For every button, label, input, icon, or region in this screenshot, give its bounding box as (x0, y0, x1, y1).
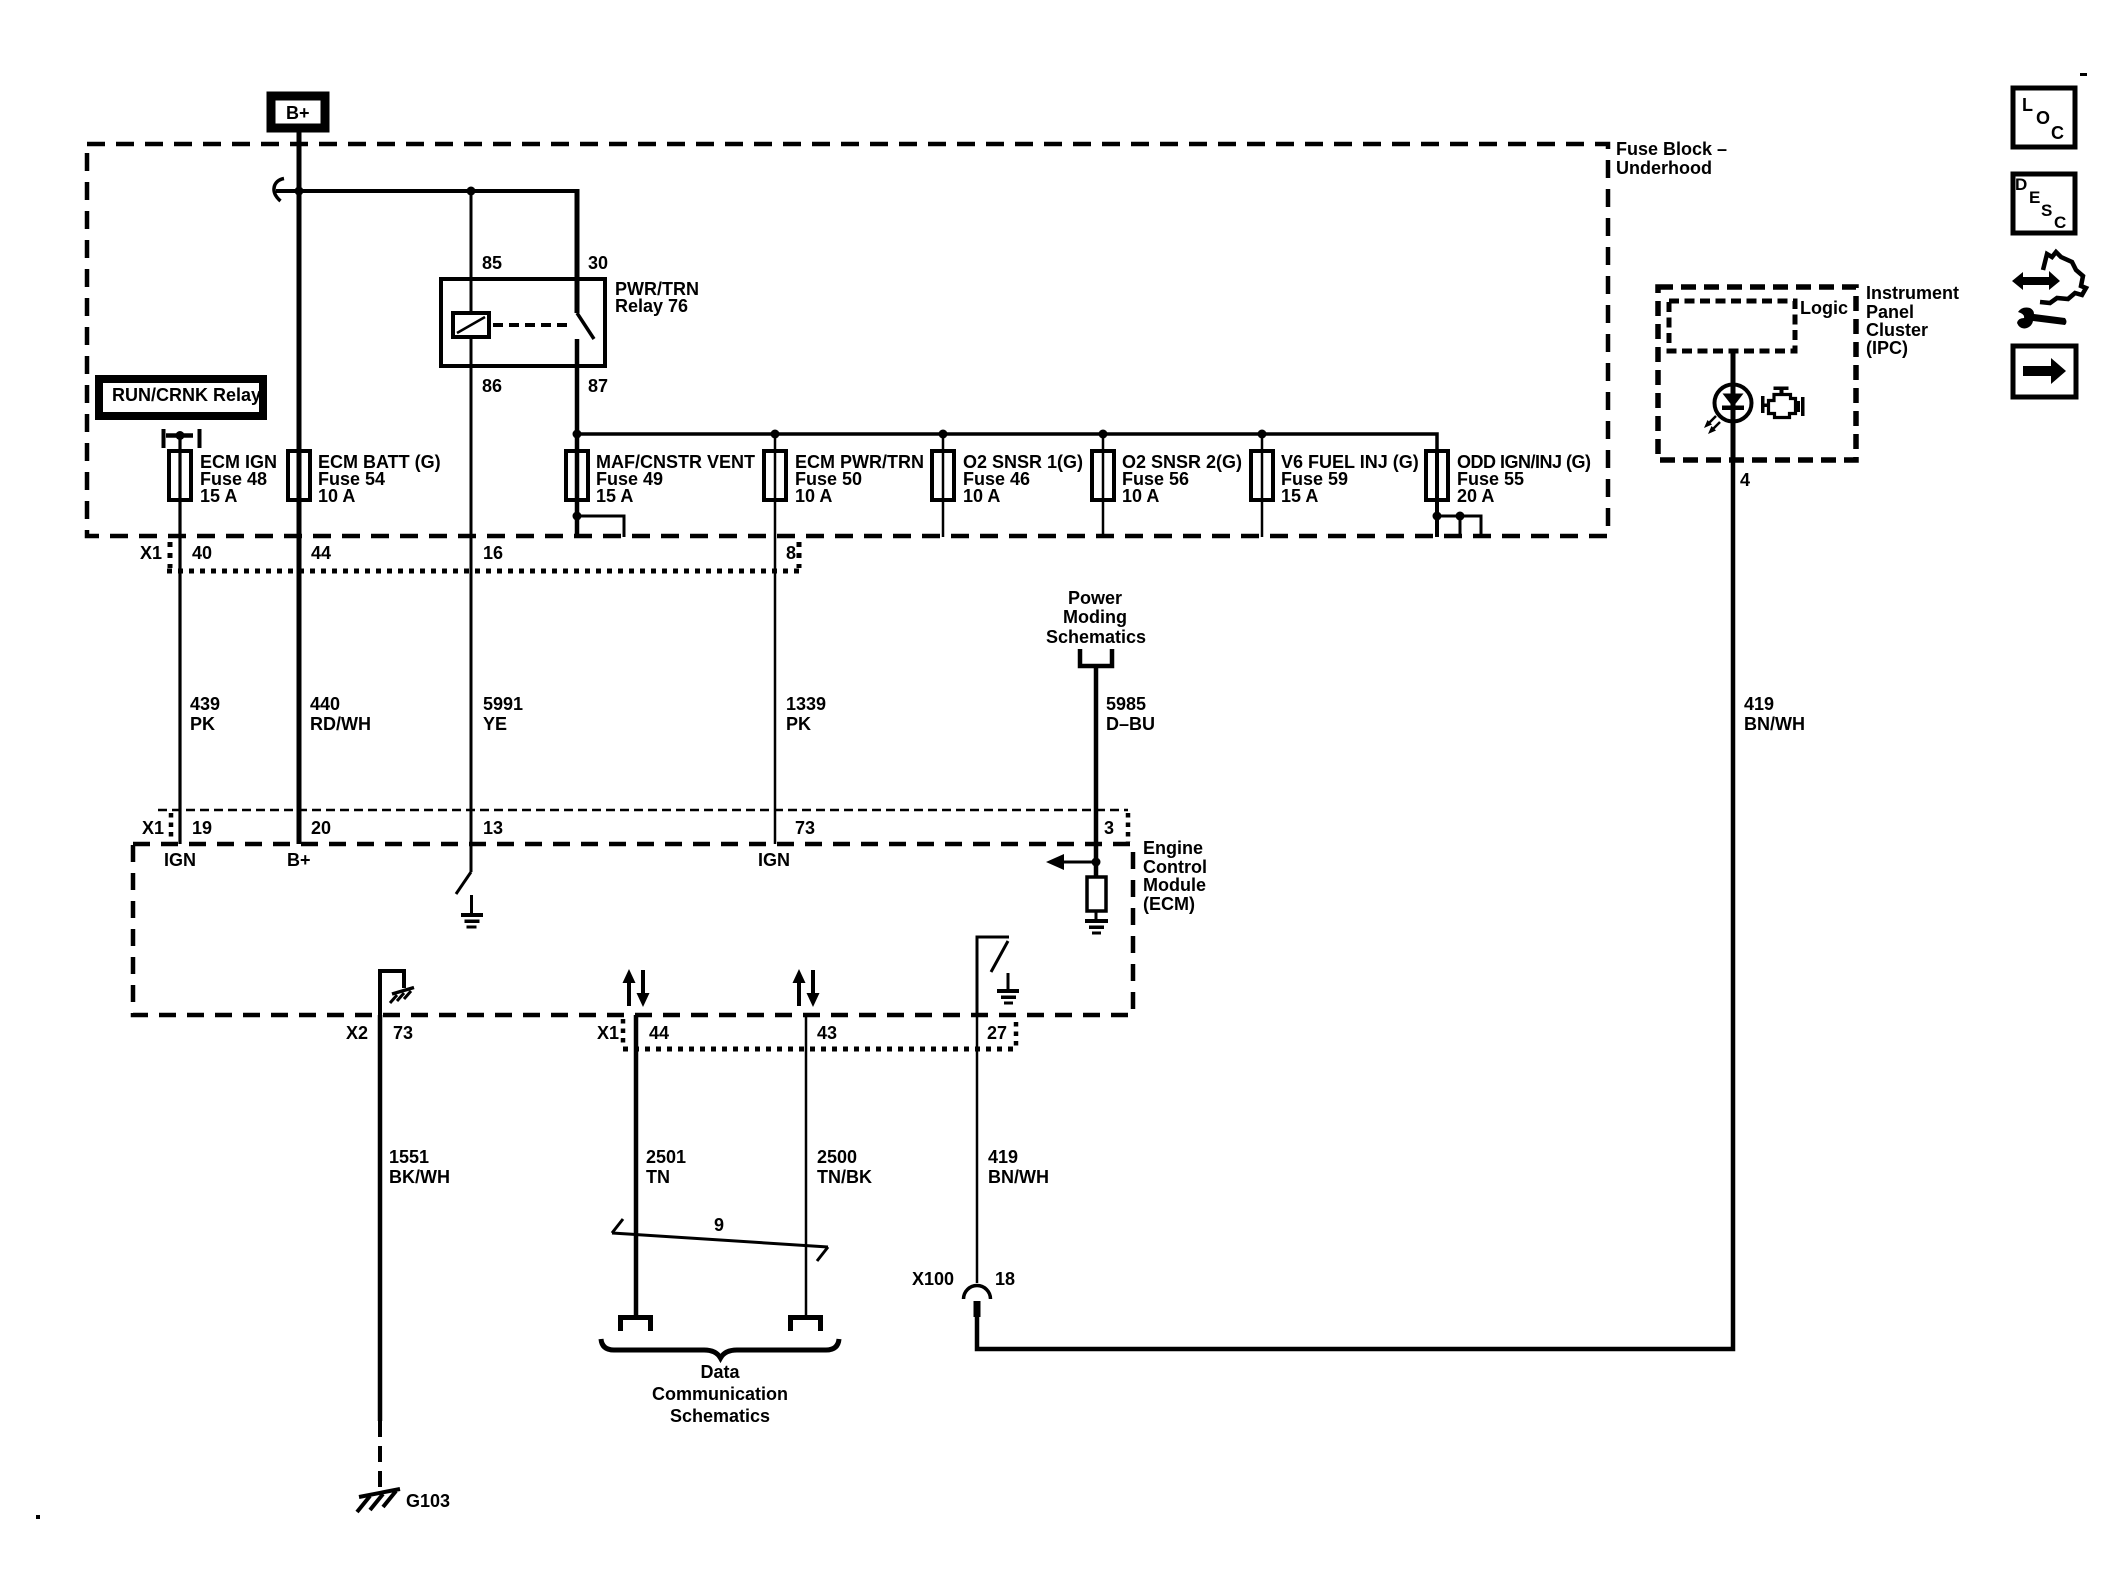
svg-text:73: 73 (795, 818, 815, 838)
svg-text:O: O (2036, 108, 2050, 128)
svg-text:13: 13 (483, 818, 503, 838)
svg-text:15 A: 15 A (1281, 486, 1318, 506)
terminal at wire 2501 (618, 1315, 653, 1331)
svg-text:Power: Power (1068, 588, 1122, 608)
svg-text:TN: TN (646, 1167, 670, 1187)
svg-text:B+: B+ (287, 850, 311, 870)
svg-text:87: 87 (588, 376, 608, 396)
svg-text:15 A: 15 A (596, 486, 633, 506)
serial data arrows at pin 44 (623, 969, 650, 1007)
svg-text:X2: X2 (346, 1023, 368, 1043)
svg-text:40: 40 (192, 543, 212, 563)
ground G103 (357, 1489, 450, 1512)
wire label 440 RD/WH (310, 694, 371, 734)
junction dot bus fuse 50 (771, 430, 780, 439)
ECM pull-down resistor (1087, 877, 1106, 911)
ECM pin 27 ground (997, 973, 1019, 1005)
ECM dashed box (133, 844, 1133, 1015)
connector X1 ECM top strip (142, 810, 1128, 842)
svg-text:27: 27 (987, 1023, 1007, 1043)
svg-text:10 A: 10 A (1122, 486, 1159, 506)
wire label 1551 BK/WH (389, 1147, 450, 1187)
relay switch blade (577, 313, 594, 339)
icon LOC box (2013, 88, 2075, 147)
wire fuse 50 output / 1339 PK pin 8 (774, 434, 777, 844)
wire label 419 BN/WH right (1744, 694, 1805, 734)
svg-text:8: 8 (786, 543, 796, 563)
svg-text:X1: X1 (140, 543, 162, 563)
svg-text:X100: X100 (912, 1269, 954, 1289)
svg-text:30: 30 (588, 253, 608, 273)
relay U76 box (441, 279, 605, 366)
svg-text:YE: YE (483, 714, 507, 734)
svg-text:Fuse Block –: Fuse Block – (1616, 139, 1727, 159)
junction dot relay coil branch (467, 187, 476, 196)
wire 1551 BK/WH (378, 1015, 383, 1421)
wire fuse supply bus (577, 434, 1437, 451)
svg-text:Cluster: Cluster (1866, 320, 1928, 340)
svg-text:440: 440 (310, 694, 340, 714)
wire fuse 56 output (1102, 434, 1105, 537)
svg-text:20 A: 20 A (1457, 486, 1494, 506)
junction dot bus fuse 59 (1258, 430, 1267, 439)
svg-text:10 A: 10 A (963, 486, 1000, 506)
connector X100 pass-through (912, 1269, 1015, 1317)
wire branch to relay (276, 189, 577, 193)
svg-text:44: 44 (311, 543, 331, 563)
svg-text:10 A: 10 A (795, 486, 832, 506)
indicator LED lamp (1715, 385, 1752, 422)
fuse F54 ECM BATT (288, 451, 441, 506)
svg-text:IGN: IGN (758, 850, 790, 870)
wire 1551 dashed section to ground (378, 1421, 382, 1491)
LED light rays (1704, 416, 1720, 434)
brace data communication (601, 1339, 839, 1358)
wire 419 BN/WH run to IPC (977, 458, 1733, 1349)
terminal at wire 2500 (788, 1315, 823, 1331)
wire fuse 48 feed / 439 PK pin 40 (178, 435, 181, 844)
icon diagnostic arrows and wrench (2012, 252, 2086, 328)
fuse F56 O2 SNSR 2 (1092, 451, 1242, 506)
svg-text:1551: 1551 (389, 1147, 429, 1167)
fuse F46 O2 SNSR 1 (932, 451, 1083, 506)
svg-text:D–BU: D–BU (1106, 714, 1155, 734)
svg-text:Panel: Panel (1866, 302, 1914, 322)
svg-text:73: 73 (393, 1023, 413, 1043)
fuse F55 ODD IGN/INJ (1426, 451, 1591, 506)
svg-text:Schematics: Schematics (1046, 627, 1146, 647)
svg-text:(ECM): (ECM) (1143, 894, 1195, 914)
serial data arrows at pin 43 (793, 969, 820, 1007)
svg-text:1339: 1339 (786, 694, 826, 714)
ECM pin 27 internal switch (977, 937, 1009, 1015)
fuse 55 output staple to other circuits (1433, 512, 1482, 538)
IPC logic dashed box (1669, 301, 1795, 351)
wire fuse 59 output (1261, 434, 1264, 537)
svg-text:10 A: 10 A (318, 486, 355, 506)
svg-text:D: D (2015, 175, 2027, 194)
page mark dash (2080, 73, 2087, 76)
ECM pin 3 junction dot (1092, 858, 1101, 867)
wire hook at branch start (274, 179, 284, 202)
fuse F49 MAF/CNSTR VENT (566, 451, 755, 506)
svg-text:3: 3 (1104, 818, 1114, 838)
label Data Communication Schematics (652, 1362, 788, 1426)
wire fuse 55 feed/output (1435, 451, 1439, 537)
RUN/CRNK relay output terminal bracket (164, 429, 200, 448)
wire relay pin 87 down to fuse 49 (575, 339, 580, 537)
svg-text:Logic: Logic (1800, 298, 1848, 318)
wire label 2501 TN (646, 1147, 686, 1187)
svg-text:C: C (2054, 213, 2066, 232)
junction dot bus fuse 46 (939, 430, 948, 439)
svg-text:BK/WH: BK/WH (389, 1167, 450, 1187)
svg-text:19: 19 (192, 818, 212, 838)
wire 419 BN/WH from pin 27 (976, 1013, 979, 1283)
icon forward arrow box (2013, 346, 2076, 397)
svg-text:15 A: 15 A (200, 486, 237, 506)
connector X2 ECM bottom label (346, 1023, 413, 1043)
ECM pin 13 switch (456, 872, 471, 894)
check engine icon (1761, 387, 1805, 418)
svg-text:(IPC): (IPC) (1866, 338, 1908, 358)
relay coil-contact dashed link (493, 323, 568, 327)
svg-text:C: C (2051, 123, 2064, 143)
wire relay pin 30 (575, 189, 580, 313)
svg-text:B+: B+ (286, 103, 310, 123)
junction dot bus fuse 56 (1099, 430, 1108, 439)
svg-text:Communication: Communication (652, 1384, 788, 1404)
junction dot at B+ branch (295, 187, 304, 196)
ECM pin 3 arrow to logic (1046, 854, 1096, 870)
wire label 419 BN/WH left (988, 1147, 1049, 1187)
wire label 439 PK (190, 694, 220, 734)
relay coil (453, 313, 489, 337)
fuse F48 ECM IGN (169, 451, 277, 506)
svg-text:X1: X1 (142, 818, 164, 838)
ECM internal chassis ground (390, 988, 414, 1004)
ECM pin 3 ground (1085, 911, 1108, 935)
fuse block underhood dashed box (87, 144, 1608, 536)
label PWR/TRN Relay 76 (615, 279, 699, 316)
svg-text:Schematics: Schematics (670, 1406, 770, 1426)
wire fuse 46 output (942, 434, 945, 537)
connector X1 fuse block strip (140, 542, 803, 571)
icon DESC box (2013, 174, 2075, 233)
svg-text:PK: PK (786, 714, 811, 734)
svg-text:E: E (2029, 188, 2040, 207)
svg-text:Module: Module (1143, 875, 1206, 895)
svg-text:5985: 5985 (1106, 694, 1146, 714)
svg-text:439: 439 (190, 694, 220, 714)
Power Moding Schematics off-page reference (1046, 588, 1146, 666)
wire relay pin 85 (470, 191, 473, 313)
svg-text:Control: Control (1143, 857, 1207, 877)
ECM pin 13 ground (461, 895, 483, 929)
page artifact dot bottom-left (36, 1515, 40, 1519)
svg-text:2500: 2500 (817, 1147, 857, 1167)
svg-text:Engine: Engine (1143, 838, 1203, 858)
wire B+ feed vertical (pin 44 / 440 RD-WH) (297, 128, 302, 844)
ECM ground lead X2-73 internal (380, 971, 404, 1015)
connector X1 ECM bottom strip (597, 1019, 1016, 1049)
fuse F50 ECM PWR/TRN (764, 451, 924, 506)
IPC dashed box (1658, 287, 1856, 460)
svg-text:44: 44 (649, 1023, 669, 1043)
svg-text:S: S (2041, 201, 2052, 220)
svg-text:Moding: Moding (1063, 607, 1127, 627)
svg-text:419: 419 (1744, 694, 1774, 714)
svg-text:5991: 5991 (483, 694, 523, 714)
wire 2501 TN (634, 1015, 639, 1315)
wire label 2500 TN/BK (817, 1147, 872, 1187)
svg-text:16: 16 (483, 543, 503, 563)
svg-text:BN/WH: BN/WH (988, 1167, 1049, 1187)
svg-text:RUN/CRNK Relay: RUN/CRNK Relay (112, 385, 261, 405)
svg-text:4: 4 (1740, 470, 1750, 490)
wire relay pin 86 down to ECM pin 13 (5991 YE) (470, 337, 473, 872)
svg-text:9: 9 (714, 1215, 724, 1235)
RUN/CRNK Relay label box (99, 379, 263, 416)
svg-text:Data: Data (700, 1362, 740, 1382)
svg-text:18: 18 (995, 1269, 1015, 1289)
svg-text:20: 20 (311, 818, 331, 838)
svg-text:BN/WH: BN/WH (1744, 714, 1805, 734)
junction dot bus at pin 87 (573, 430, 582, 439)
svg-text:PK: PK (190, 714, 215, 734)
power terminal B+ box (271, 96, 325, 128)
svg-text:TN/BK: TN/BK (817, 1167, 872, 1187)
svg-text:Relay 76: Relay 76 (615, 296, 688, 316)
wire IPC logic to pin 4 (1731, 351, 1736, 460)
wire label 5991 YE (483, 694, 523, 734)
label Fuse Block - Underhood (1616, 139, 1727, 178)
svg-text:2501: 2501 (646, 1147, 686, 1167)
svg-text:Underhood: Underhood (1616, 158, 1712, 178)
twisted pair marker 9 (612, 1215, 828, 1261)
label Engine Control Module (ECM) (1143, 838, 1207, 914)
label Instrument Panel Cluster (IPC) (1866, 283, 1959, 358)
fuse F59 V6 FUEL INJ (1251, 451, 1419, 506)
svg-text:Instrument: Instrument (1866, 283, 1959, 303)
wire 5985 D-BU (1094, 666, 1099, 877)
svg-text:IGN: IGN (164, 850, 196, 870)
svg-text:L: L (2022, 95, 2033, 115)
wire label 1339 PK (786, 694, 826, 734)
svg-text:43: 43 (817, 1023, 837, 1043)
svg-text:86: 86 (482, 376, 502, 396)
svg-text:85: 85 (482, 253, 502, 273)
svg-text:G103: G103 (406, 1491, 450, 1511)
svg-text:419: 419 (988, 1147, 1018, 1167)
fuse 49 output staple to other circuits (573, 512, 625, 538)
svg-text:X1: X1 (597, 1023, 619, 1043)
svg-text:RD/WH: RD/WH (310, 714, 371, 734)
wire label 5985 D-BU (1106, 694, 1155, 734)
wire 2500 TN/BK (805, 1015, 808, 1315)
